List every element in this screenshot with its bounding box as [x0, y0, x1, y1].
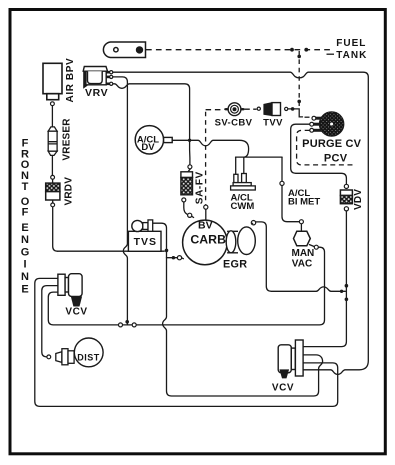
- svg-text:EGR: EGR: [223, 259, 247, 271]
- svg-text:F: F: [22, 207, 29, 219]
- svg-text:N: N: [21, 271, 29, 283]
- svg-text:VRDV: VRDV: [63, 177, 74, 206]
- svg-text:BI MET: BI MET: [288, 196, 320, 207]
- svg-text:CARB: CARB: [190, 232, 226, 246]
- svg-text:N: N: [21, 234, 29, 246]
- svg-text:VCV: VCV: [272, 383, 294, 394]
- svg-text:PCV: PCV: [324, 153, 348, 165]
- svg-text:T: T: [22, 181, 29, 193]
- svg-text:BV: BV: [198, 219, 213, 231]
- svg-text:DV: DV: [141, 142, 155, 153]
- svg-text:VAC: VAC: [292, 259, 312, 270]
- svg-text:MAN: MAN: [292, 248, 315, 259]
- svg-text:PURGE CV: PURGE CV: [302, 138, 362, 150]
- svg-text:E: E: [21, 222, 28, 234]
- svg-text:I: I: [23, 259, 26, 271]
- svg-text:TVV: TVV: [263, 117, 283, 128]
- svg-text:VCV: VCV: [65, 307, 87, 318]
- svg-text:VDV: VDV: [353, 189, 364, 210]
- svg-text:DIST: DIST: [77, 352, 100, 362]
- svg-text:AIR BPV: AIR BPV: [65, 58, 76, 103]
- svg-text:CWM: CWM: [231, 201, 255, 212]
- svg-text:E: E: [21, 283, 28, 295]
- svg-text:FUEL: FUEL: [336, 38, 366, 49]
- svg-text:G: G: [21, 246, 30, 258]
- svg-text:VRV: VRV: [85, 87, 108, 99]
- svg-text:TVS: TVS: [134, 236, 157, 248]
- svg-text:VRESER: VRESER: [62, 118, 73, 161]
- svg-text:SV-CBV: SV-CBV: [215, 117, 253, 128]
- svg-text:SA-FV: SA-FV: [195, 171, 206, 204]
- svg-text:TANK: TANK: [336, 50, 367, 61]
